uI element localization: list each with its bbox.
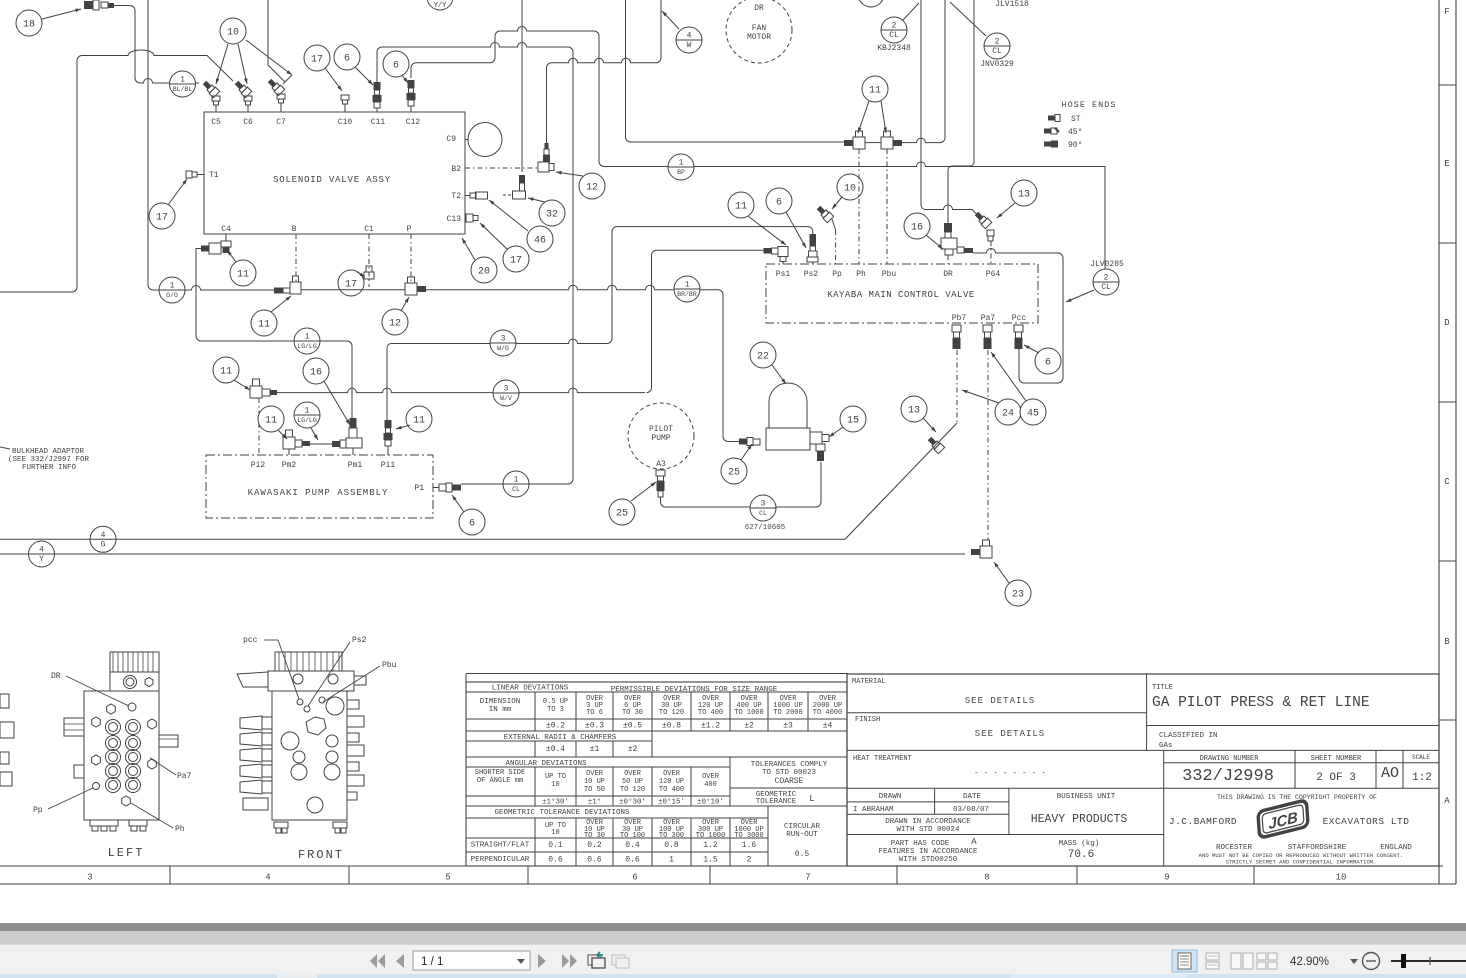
svg-text:4: 4 [687,32,692,41]
svg-text:BULKHEAD ADAPTOR: BULKHEAD ADAPTOR [12,448,85,456]
svg-text:F: F [1444,7,1449,17]
circle 1 BL/BL [170,71,196,97]
svg-text:E: E [1444,159,1449,169]
svg-text:CL: CL [1101,283,1111,292]
circle 1 BP [668,154,694,180]
svg-text:G: G [101,540,106,549]
svg-text:4: 4 [101,531,106,540]
wire Ps1 branch [657,249,764,251]
svg-text:BUSINESS UNIT: BUSINESS UNIT [1057,793,1116,801]
svg-text:Pi2: Pi2 [251,461,266,470]
balloon 13 leader P64 [1011,180,1037,206]
svg-text:400: 400 [704,781,717,789]
svg-text:TO STD 00023: TO STD 00023 [762,769,817,777]
svg-text:1: 1 [305,333,310,342]
svg-text:12: 12 [389,319,401,330]
balloon 11 leader Pi2 [213,357,239,383]
svg-text:90°: 90° [1068,141,1082,150]
wire C4 stub [225,234,227,241]
svg-text:DR: DR [51,672,61,681]
wire W/G line [387,344,392,421]
svg-text:120 UP: 120 UP [659,778,684,786]
wire P dashdot [410,234,412,283]
balloon 23 leader [1005,580,1031,606]
svg-text:Pm1: Pm1 [348,461,363,470]
svg-text:6: 6 [469,519,475,530]
fitting A3 stack [656,470,665,476]
wire Pm2 to Pm1 [310,443,332,445]
svg-text:Pbu: Pbu [882,270,897,279]
svg-text:±0°30': ±0°30' [619,798,646,807]
svg-text:B: B [1444,637,1450,647]
svg-text:6: 6 [632,873,637,883]
svg-text:C1: C1 [364,225,374,234]
svg-text:TO 1000: TO 1000 [734,709,763,717]
wire Ph feed line [625,0,627,137]
fitting 13 on diagonal 45deg [926,435,944,453]
wire C12 up staircase to BP line [411,63,416,78]
balloon 11 leader C4 [230,260,256,286]
svg-text:6: 6 [776,198,782,209]
next view icon disabled [612,955,629,968]
wire Pcc down stub [1018,349,1020,352]
zoom out button [1363,953,1380,970]
wire C4 to LG/LG line [196,249,201,342]
fitting Pm1 tee [346,438,362,448]
svg-text:±0.3: ±0.3 [585,722,604,731]
accumulator 22 [769,383,807,428]
solenoid valve assy box [204,112,465,234]
svg-text:T1: T1 [209,171,219,180]
svg-text:BL/BL: BL/BL [173,86,193,93]
svg-text:10: 10 [1336,873,1347,883]
svg-text:Y/Y: Y/Y [434,2,447,10]
svg-text:TO 4000: TO 4000 [813,709,842,717]
svg-text:FINISH: FINISH [855,716,880,724]
svg-text:0.5 UP: 0.5 UP [543,698,568,706]
wire from fitting 18 down to BL/BL line [112,6,140,84]
svg-text:CL: CL [889,31,899,40]
wire x=650 vertical [651,255,653,387]
fitting C4 [221,241,231,247]
balloon 18 [16,10,42,36]
circle Y/Y partial [427,0,453,10]
wire C11 up over to CL vertical [377,47,382,82]
svg-text:B: B [292,225,297,234]
svg-text:COARSE: COARSE [775,777,804,786]
svg-text:CIRCULAR: CIRCULAR [784,823,821,831]
svg-text:7: 7 [805,873,810,883]
wire CL line [461,483,568,485]
wire hose Y line [0,553,965,555]
svg-text:JLV1518: JLV1518 [995,0,1029,9]
svg-text:22: 22 [757,352,769,363]
svg-text:TO 400: TO 400 [659,786,684,794]
balloon 16 leader DR [904,213,930,239]
svg-text:BP: BP [677,169,685,176]
svg-text:16: 16 [310,368,322,379]
svg-text:1: 1 [180,76,185,85]
svg-text:SHEET NUMBER: SHEET NUMBER [1311,755,1362,763]
balloon 13 leader diag [901,396,927,422]
svg-text:0.5: 0.5 [795,850,810,859]
pilot pump circle [628,403,694,469]
svg-text:4: 4 [265,873,270,883]
fitting T1 [186,171,192,178]
wire y=63 across and up to page top [552,58,657,62]
wire B2 up to y=63 line [546,68,548,143]
svg-text:A: A [971,837,977,847]
svg-text:0.6: 0.6 [548,856,563,865]
fitting Pp 45deg [815,204,833,222]
svg-text:ROCESTER: ROCESTER [1216,844,1253,852]
svg-text:RUN-OUT: RUN-OUT [786,831,818,839]
balloon 15 leader [840,406,866,432]
svg-text:B2: B2 [451,165,461,174]
svg-text:DR: DR [943,270,953,279]
svg-text:CLASSIFIED IN: CLASSIFIED IN [1159,732,1218,740]
circle 1 LG/LG second [294,402,320,428]
svg-text:2: 2 [995,38,1000,47]
circle 3 W/V [493,380,519,406]
svg-text:0.8: 0.8 [664,841,679,850]
circle 3 W/G [490,330,516,356]
svg-text:TO 6: TO 6 [586,709,603,717]
page number combo box [413,951,530,970]
valve block LEFT view [33,652,192,860]
svg-text:1.5: 1.5 [703,856,718,865]
previous view icon [588,952,605,968]
svg-text:A: A [1444,796,1450,806]
svg-text:32: 32 [546,210,558,221]
fitting C1 [364,272,374,279]
svg-text:2 OF 3: 2 OF 3 [1316,772,1356,784]
svg-text:PERPENDICULAR: PERPENDICULAR [471,856,530,864]
svg-text:KAWASAKI PUMP ASSEMBLY: KAWASAKI PUMP ASSEMBLY [248,488,389,498]
svg-text:TO 120: TO 120 [659,709,684,717]
svg-text:TO 100: TO 100 [620,832,645,840]
wire Pi2 dashdot [258,398,260,455]
svg-text:GAs: GAs [1159,742,1173,750]
balloon 32 leader T2 [539,200,565,226]
svg-text:PILOT: PILOT [649,425,673,434]
balloon 6 leader Ps2 [766,188,792,214]
svg-text:6: 6 [1045,358,1051,369]
fitting C7 45deg [266,77,284,95]
svg-text:C5: C5 [211,118,221,127]
wire B dashdot [295,234,297,282]
svg-text:OF ANGLE mm: OF ANGLE mm [477,777,523,785]
svg-text:1 / 1: 1 / 1 [421,956,443,968]
fitting Ps2 stack [810,234,817,246]
kayaba control valve box [766,264,1038,323]
svg-text:1.6: 1.6 [742,841,757,850]
svg-text:TOLERANCE: TOLERANCE [756,798,797,806]
svg-text:- - - - - - - -: - - - - - - - - [974,769,1046,778]
svg-text:±2: ±2 [744,722,754,731]
fitting at top-left (item 18 bulkhead) [84,0,114,10]
bottom ruler band [0,866,1456,884]
fitting C11 stack [374,82,381,90]
wire Pb7 dashdot [956,350,958,423]
svg-text:10: 10 [844,184,856,195]
svg-text:45: 45 [1027,409,1039,420]
balloon 17 leader C1 [338,270,364,296]
svg-text:±4: ±4 [823,722,833,731]
svg-text:FAN: FAN [752,24,767,33]
balloon 12 leader B2 [579,173,605,199]
svg-text:GEOMETRIC TOLERANCE DEVIATIONS: GEOMETRIC TOLERANCE DEVIATIONS [494,809,630,817]
svg-text:9: 9 [1164,873,1169,883]
svg-text:SOLENOID VALVE ASSY: SOLENOID VALVE ASSY [273,175,391,185]
svg-text:O/O: O/O [166,292,178,299]
bottom status strip [0,974,1466,978]
svg-text:ST: ST [1071,115,1081,124]
svg-text:Ph: Ph [856,270,866,279]
svg-text:FEATURES IN ACCORDANCE: FEATURES IN ACCORDANCE [878,848,978,856]
single page layout icon active [1172,950,1197,972]
wire Pa7 dashdot [987,350,989,540]
circle 2 CL KBJ2348 [881,17,907,43]
kawasaki pump assembly box [206,455,433,518]
svg-text:DRAWING NUMBER: DRAWING NUMBER [1200,755,1260,763]
svg-text:EXCAVATORS LTD: EXCAVATORS LTD [1323,816,1410,827]
partial balloon top [858,0,884,7]
svg-text:1:2: 1:2 [1412,772,1432,784]
svg-text:T2: T2 [451,192,461,201]
wire A3 to accumulator [661,462,822,507]
fan motor circle [726,0,792,63]
balloon 25 leader acc [721,458,747,484]
svg-text:TO 30: TO 30 [584,832,605,840]
svg-text:11: 11 [258,320,270,331]
svg-text:LINEAR DEVIATIONS: LINEAR DEVIATIONS [492,685,569,693]
fitting B2 elbow [538,162,549,172]
svg-text:W/V: W/V [500,395,512,402]
svg-text:HEAT TREATMENT: HEAT TREATMENT [853,755,912,763]
wire Pp dashdot [832,219,836,230]
fitting Ph elbow [853,137,865,149]
wire DR to right descent [973,249,1058,254]
svg-text:MATERIAL: MATERIAL [852,678,886,686]
fitting accumulator right [810,432,822,444]
svg-text:8: 8 [984,873,989,883]
svg-text:STAFFORDSHIRE: STAFFORDSHIRE [1288,844,1347,852]
svg-text:C: C [1444,477,1450,487]
fitting B elbow [290,282,301,294]
svg-text:OVER: OVER [586,770,604,778]
svg-text:10: 10 [551,781,559,789]
balloon 11 leader B [251,310,277,336]
svg-text:TO 30: TO 30 [622,709,643,717]
tolerance table [466,674,848,867]
wire P64 dashdot [990,241,992,264]
svg-text:TO 3: TO 3 [547,706,564,714]
svg-text:70.6: 70.6 [1068,849,1094,861]
svg-text:A3: A3 [656,460,666,469]
balloon 45 leader [1020,399,1046,425]
svg-text:HOSE ENDS: HOSE ENDS [1062,100,1117,110]
svg-text:2: 2 [1104,274,1109,283]
svg-text:BR/BR: BR/BR [677,291,697,298]
svg-text:10: 10 [551,829,559,837]
svg-text:J.C.BAMFORD: J.C.BAMFORD [1169,816,1237,827]
wire from C7 up to x=268 [268,0,285,82]
fitting C5 45deg [201,79,219,97]
svg-text:11: 11 [265,416,277,427]
svg-text:1: 1 [679,159,684,168]
svg-text:20: 20 [478,267,490,278]
balloon 17 leader C13 [503,246,529,272]
wire LG/LG corner down to Pm1 [347,341,352,418]
balloon 17 leader to C10 [304,45,330,71]
wire KBJ vertical [920,0,922,205]
svg-text:Ps2: Ps2 [804,270,819,279]
first page button [370,954,385,968]
viewer dark separator strip [0,923,1466,931]
svg-text:P1: P1 [414,484,424,493]
svg-text:OVER: OVER [624,770,642,778]
svg-text:JLV0285: JLV0285 [1090,260,1124,269]
svg-text:50 UP: 50 UP [622,778,643,786]
svg-text:OVER: OVER [702,773,720,781]
svg-text:24: 24 [1002,409,1014,420]
svg-text:TO 120: TO 120 [620,786,645,794]
balloon 25 leader A3 [609,499,635,525]
svg-text:±0°10': ±0°10' [697,798,724,807]
svg-text:6: 6 [393,61,399,72]
svg-text:13: 13 [1018,190,1030,201]
bulkhead adaptor note [0,447,10,449]
svg-text:DRAWN: DRAWN [879,793,902,801]
svg-text:±0.2: ±0.2 [546,722,565,731]
balloon 6 leader to C11 [334,44,360,70]
svg-text:25: 25 [728,468,740,479]
balloon 22 leader [750,342,776,368]
balloon 17 leader T1 [149,203,175,229]
wire Ph dashdot [858,149,860,264]
svg-text:17: 17 [311,55,323,66]
svg-text:C4: C4 [221,225,231,234]
svg-text:C13: C13 [447,215,462,224]
circle 1 CL [503,471,529,497]
svg-text:PERMISSIBLE DEVIATIONS FOR SIZ: PERMISSIBLE DEVIATIONS FOR SIZE RANGE [611,686,778,694]
circle 1 BR/BR [674,276,700,302]
svg-text:1: 1 [514,476,519,485]
svg-text:11: 11 [735,202,747,213]
balloon 20 leader box corner [471,257,497,283]
prev page button [396,954,404,968]
svg-text:Ps1: Ps1 [776,270,791,279]
balloon 6 leader Pcc [1035,348,1061,374]
balloon 6 leader P1 [459,509,485,535]
svg-text:I ABRAHAM: I ABRAHAM [853,806,894,814]
svg-text:1: 1 [170,282,175,291]
svg-text:Pp: Pp [33,806,43,815]
two page layout icon [1231,953,1253,969]
svg-text:3: 3 [501,335,506,344]
balloon 10 with three leaders [220,18,246,44]
svg-text:12: 12 [586,183,598,194]
svg-text:1: 1 [305,407,310,416]
svg-text:4: 4 [39,546,44,555]
wire B2 dashdot [465,167,537,169]
svg-text:332/J2998: 332/J2998 [1182,767,1274,786]
svg-text:TO 3000: TO 3000 [734,832,763,840]
svg-text:LG/LG: LG/LG [297,417,317,424]
svg-text:±1: ±1 [590,745,600,754]
svg-text:LG/LG: LG/LG [297,343,317,350]
viewer medium gray band [0,931,1466,944]
svg-text:11: 11 [237,270,249,281]
svg-text:C12: C12 [406,118,421,127]
svg-text:1: 1 [669,856,674,865]
svg-text:15: 15 [847,416,859,427]
balloon 16 leader Pm1 [303,358,329,384]
wire W/V line [277,388,645,393]
svg-text:11: 11 [413,416,425,427]
circle 4 Y [29,541,55,567]
circle 1 LG/LG [294,328,320,354]
svg-text:JNV0329: JNV0329 [980,60,1014,69]
svg-text:TOLERANCES COMPLY: TOLERANCES COMPLY [751,761,828,769]
svg-text:627/10605: 627/10605 [745,524,786,532]
svg-text:Pbu: Pbu [382,661,397,670]
fitting Pm2 elbow [283,437,295,449]
svg-text:HEAVY PRODUCTS: HEAVY PRODUCTS [1031,813,1128,826]
leader 18 [42,9,81,19]
svg-text:16: 16 [911,223,923,234]
svg-text:SCALE: SCALE [1412,754,1430,761]
svg-text:1: 1 [685,281,690,290]
svg-text:THIS DRAWING IS THE COPYRIGHT: THIS DRAWING IS THE COPYRIGHT PROPERTY O… [1217,794,1377,801]
svg-text:±0.8: ±0.8 [662,722,681,731]
svg-text:GA PILOT PRESS & RET LINE: GA PILOT PRESS & RET LINE [1152,695,1370,711]
balloon 46 leader T2 [527,226,553,252]
svg-text:SEE DETAILS: SEE DETAILS [965,696,1035,706]
svg-text:C6: C6 [243,118,253,127]
svg-text:PUMP: PUMP [651,434,670,443]
wire to JLV0285 [1104,166,1106,269]
svg-text:Pa7: Pa7 [981,314,996,323]
fitting Pcc [1014,325,1023,332]
balloon 10 leader Pp [837,174,863,200]
svg-text:45°: 45° [1068,128,1082,137]
svg-text:MASS (kg): MASS (kg) [1059,840,1100,848]
svg-text:2: 2 [892,22,897,31]
svg-text:(SEE 332/J2997 FOR: (SEE 332/J2997 FOR [8,456,90,464]
svg-text:Pp: Pp [832,270,842,279]
wire Pbu dashdot [886,149,888,264]
fitting C10 [341,95,349,100]
svg-text:Pa7: Pa7 [177,772,192,781]
svg-text:DR: DR [754,4,764,13]
two page continuous icon [1257,953,1277,969]
svg-text:DRAWN IN ACCORDANCE: DRAWN IN ACCORDANCE [885,818,971,826]
fitting Ps1 [778,247,788,257]
svg-text:KAYABA MAIN CONTROL VALVE: KAYABA MAIN CONTROL VALVE [827,290,975,300]
svg-text:SEE DETAILS: SEE DETAILS [975,729,1045,739]
svg-text:WITH STD 00024: WITH STD 00024 [896,826,960,834]
svg-text:TO 300: TO 300 [659,832,684,840]
svg-text:3: 3 [761,500,766,509]
fitting Pi2 elbow [250,386,262,398]
svg-text:SHORTER SIDE: SHORTER SIDE [475,769,525,777]
svg-text:LEFT: LEFT [108,846,145,860]
wire LG/LG horizontal [201,340,347,342]
svg-text:D: D [1444,318,1449,328]
svg-text:Pb7: Pb7 [952,314,967,323]
